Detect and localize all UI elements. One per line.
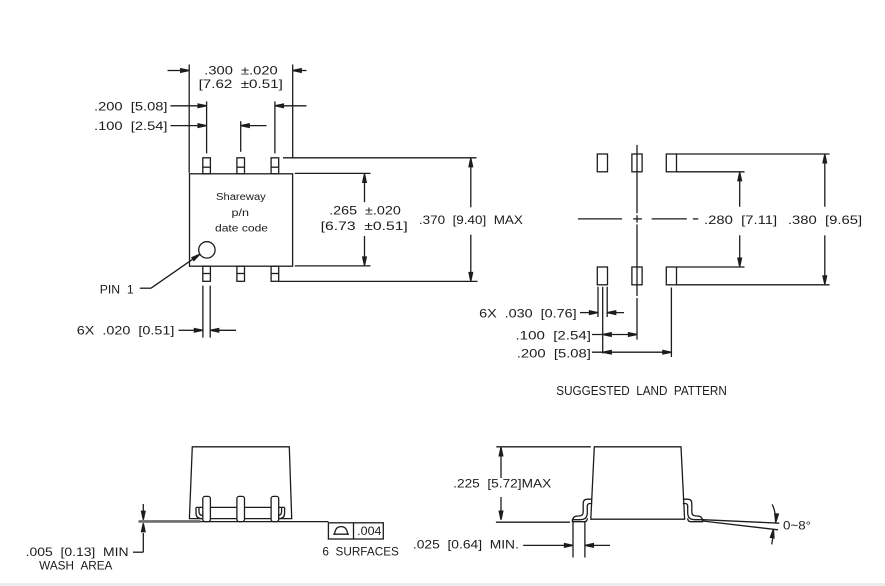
dim .300 extension line right [292,65,294,158]
svg-text:.200 [5.08]: .200 [5.08] [94,100,168,113]
top pin 2 [237,158,245,174]
svg-text:6 SURFACES: 6 SURFACES [322,545,399,558]
bottom pad3 bottom edge extension (.380 bottom) [677,284,830,286]
flatness feature control frame [328,523,383,539]
svg-text:.100 [2.54]: .100 [2.54] [516,329,591,342]
dim .300 extension line left [188,65,190,173]
land pad bottom 5 [632,267,642,285]
pad3 centerline extension down [670,288,672,358]
svg-text:.300 ±.020: .300 ±.020 [204,64,278,77]
side-view lead 1 [203,496,211,521]
wash area line (gray) [139,520,201,523]
lead frame left hook [196,507,203,518]
dim .200 extension pin3 center [274,101,276,153]
svg-text:p/n: p/n [232,208,250,219]
dim .370 vertical dimension line [470,160,472,207]
svg-text:0~8°: 0~8° [783,519,811,533]
svg-text:date code: date code [215,224,269,235]
right gull-wing lead [683,499,703,522]
svg-text:.280 [7.11]: .280 [7.11] [704,214,777,227]
svg-text:.225 [5.72]MAX: .225 [5.72]MAX [453,477,551,490]
dim .265 bottom extension [295,265,371,267]
dim .100 arrow at pin2 centerline [241,125,267,127]
package body outline (top view) [190,174,293,266]
side-view lead 2 [237,496,245,521]
land pad top 2 [632,154,642,172]
side-view lead 3 [271,496,279,521]
0~8 degree reference lines [703,520,780,524]
dim .300 left arrow [168,70,182,72]
dim .380 vertical dimension line [824,156,826,207]
pad1 centerline extension down [602,287,604,354]
top pin 3 [271,158,279,174]
dim .370 top extension at pin-top level [283,157,477,159]
land pad bottom 6 [666,267,676,285]
svg-text:Shareway: Shareway [216,192,266,203]
svg-text:.005 [0.13] MIN: .005 [0.13] MIN [26,546,129,559]
dim .100 leader with right arrow at pin1 centerline [171,125,199,127]
dim .025 extension lines from foot [572,522,574,558]
svg-text:[7.62 ±0.51]: [7.62 ±0.51] [199,78,283,91]
dim .200 leader with right arrow at pin1 centerline [171,105,199,107]
svg-text:[6.73 ±0.51]: [6.73 ±0.51] [321,220,408,233]
dim .225 bottom extension (seating) [496,521,570,523]
dim 6X .030 right arrow [607,312,624,314]
bottom pin 4 [203,266,211,281]
svg-text:SUGGESTED LAND PATTERN: SUGGESTED LAND PATTERN [556,383,727,398]
dim .370 bottom extension at pin-bottom level [279,280,478,282]
dim .100 extension pin2 center [240,121,242,152]
dim .225 top extension [496,446,591,448]
body outline (lead side view) [591,447,685,519]
top pin 1 [203,158,211,174]
dim 6X .030 extension lines from pad1 edges [597,287,599,317]
dim .100 dimension line pad1-pad2 center [592,334,637,336]
svg-text:PIN 1: PIN 1 [100,282,134,296]
land pad top 3 [666,154,676,172]
dim .005 up arrow below wash line [142,533,144,541]
land pad bottom 4 [597,267,607,285]
lead frame bar [196,506,285,508]
dim .280 vertical dimension line [739,174,741,207]
flatness symbol [333,527,349,535]
dim .200 dimension line pad1-pad3 center [592,351,671,353]
svg-text:WASH AREA: WASH AREA [39,559,112,572]
svg-text:.370 [9.40] MAX: .370 [9.40] MAX [419,214,523,227]
pad3 top edge extension (.380 top) [677,153,830,155]
PIN 1 leader line with arrow to index circle [140,287,151,289]
body outline (side view) [189,447,291,519]
vertical centerline pad column 2 [636,145,638,213]
dim .300 right arrow [293,70,307,72]
bottom pad3 top edge extension (.280 bottom) [677,266,745,268]
dim .025 right arrow [585,544,610,546]
svg-text:6X .020 [0.51]: 6X .020 [0.51] [77,325,175,338]
dim .265 vertical dimension line [364,177,366,203]
pad2 centerline extension down [636,298,638,340]
dim .200 arrow at pin3 centerline [275,105,307,107]
svg-text:.265 ±.020: .265 ±.020 [329,205,401,218]
dim 6X .020 extension lines from pin1 edges [202,286,204,338]
pad3 bottom edge extension (.280 top) [677,171,745,173]
svg-text:.025 [0.64] MIN.: .025 [0.64] MIN. [413,539,519,552]
dim .265 top extension [295,172,371,174]
0~8 degree arc with arrows [772,504,775,544]
land pad top 1 [597,154,607,172]
lead frame right hook [278,507,285,518]
svg-text:.004: .004 [357,525,382,538]
page bottom edge strip [0,583,885,586]
svg-text:.200 [5.08]: .200 [5.08] [517,347,591,360]
dim .225 vertical dimension line [500,449,502,478]
seating plane line [201,521,329,523]
dim 6X .020 left arrow [179,329,195,331]
dim .005 leader elbow [142,541,144,552]
pin 1 index circle [199,242,215,258]
svg-text:6X .030 [0.76]: 6X .030 [0.76] [479,307,577,320]
dim 6X .030 left arrow [580,312,590,314]
dim 6X .020 right arrow [210,329,236,331]
bottom pin 5 [237,266,245,281]
dim .200 extension pin1 center [206,101,208,153]
left gull-wing lead [572,499,592,522]
dim .025 left arrow [523,544,564,546]
dim .005 down arrow above wash line [142,504,144,511]
svg-text:.100 [2.54]: .100 [2.54] [94,120,168,133]
svg-text:.380 [9.65]: .380 [9.65] [788,214,862,227]
bottom pin 6 [271,266,279,281]
horizontal centerline with cross [578,218,622,220]
